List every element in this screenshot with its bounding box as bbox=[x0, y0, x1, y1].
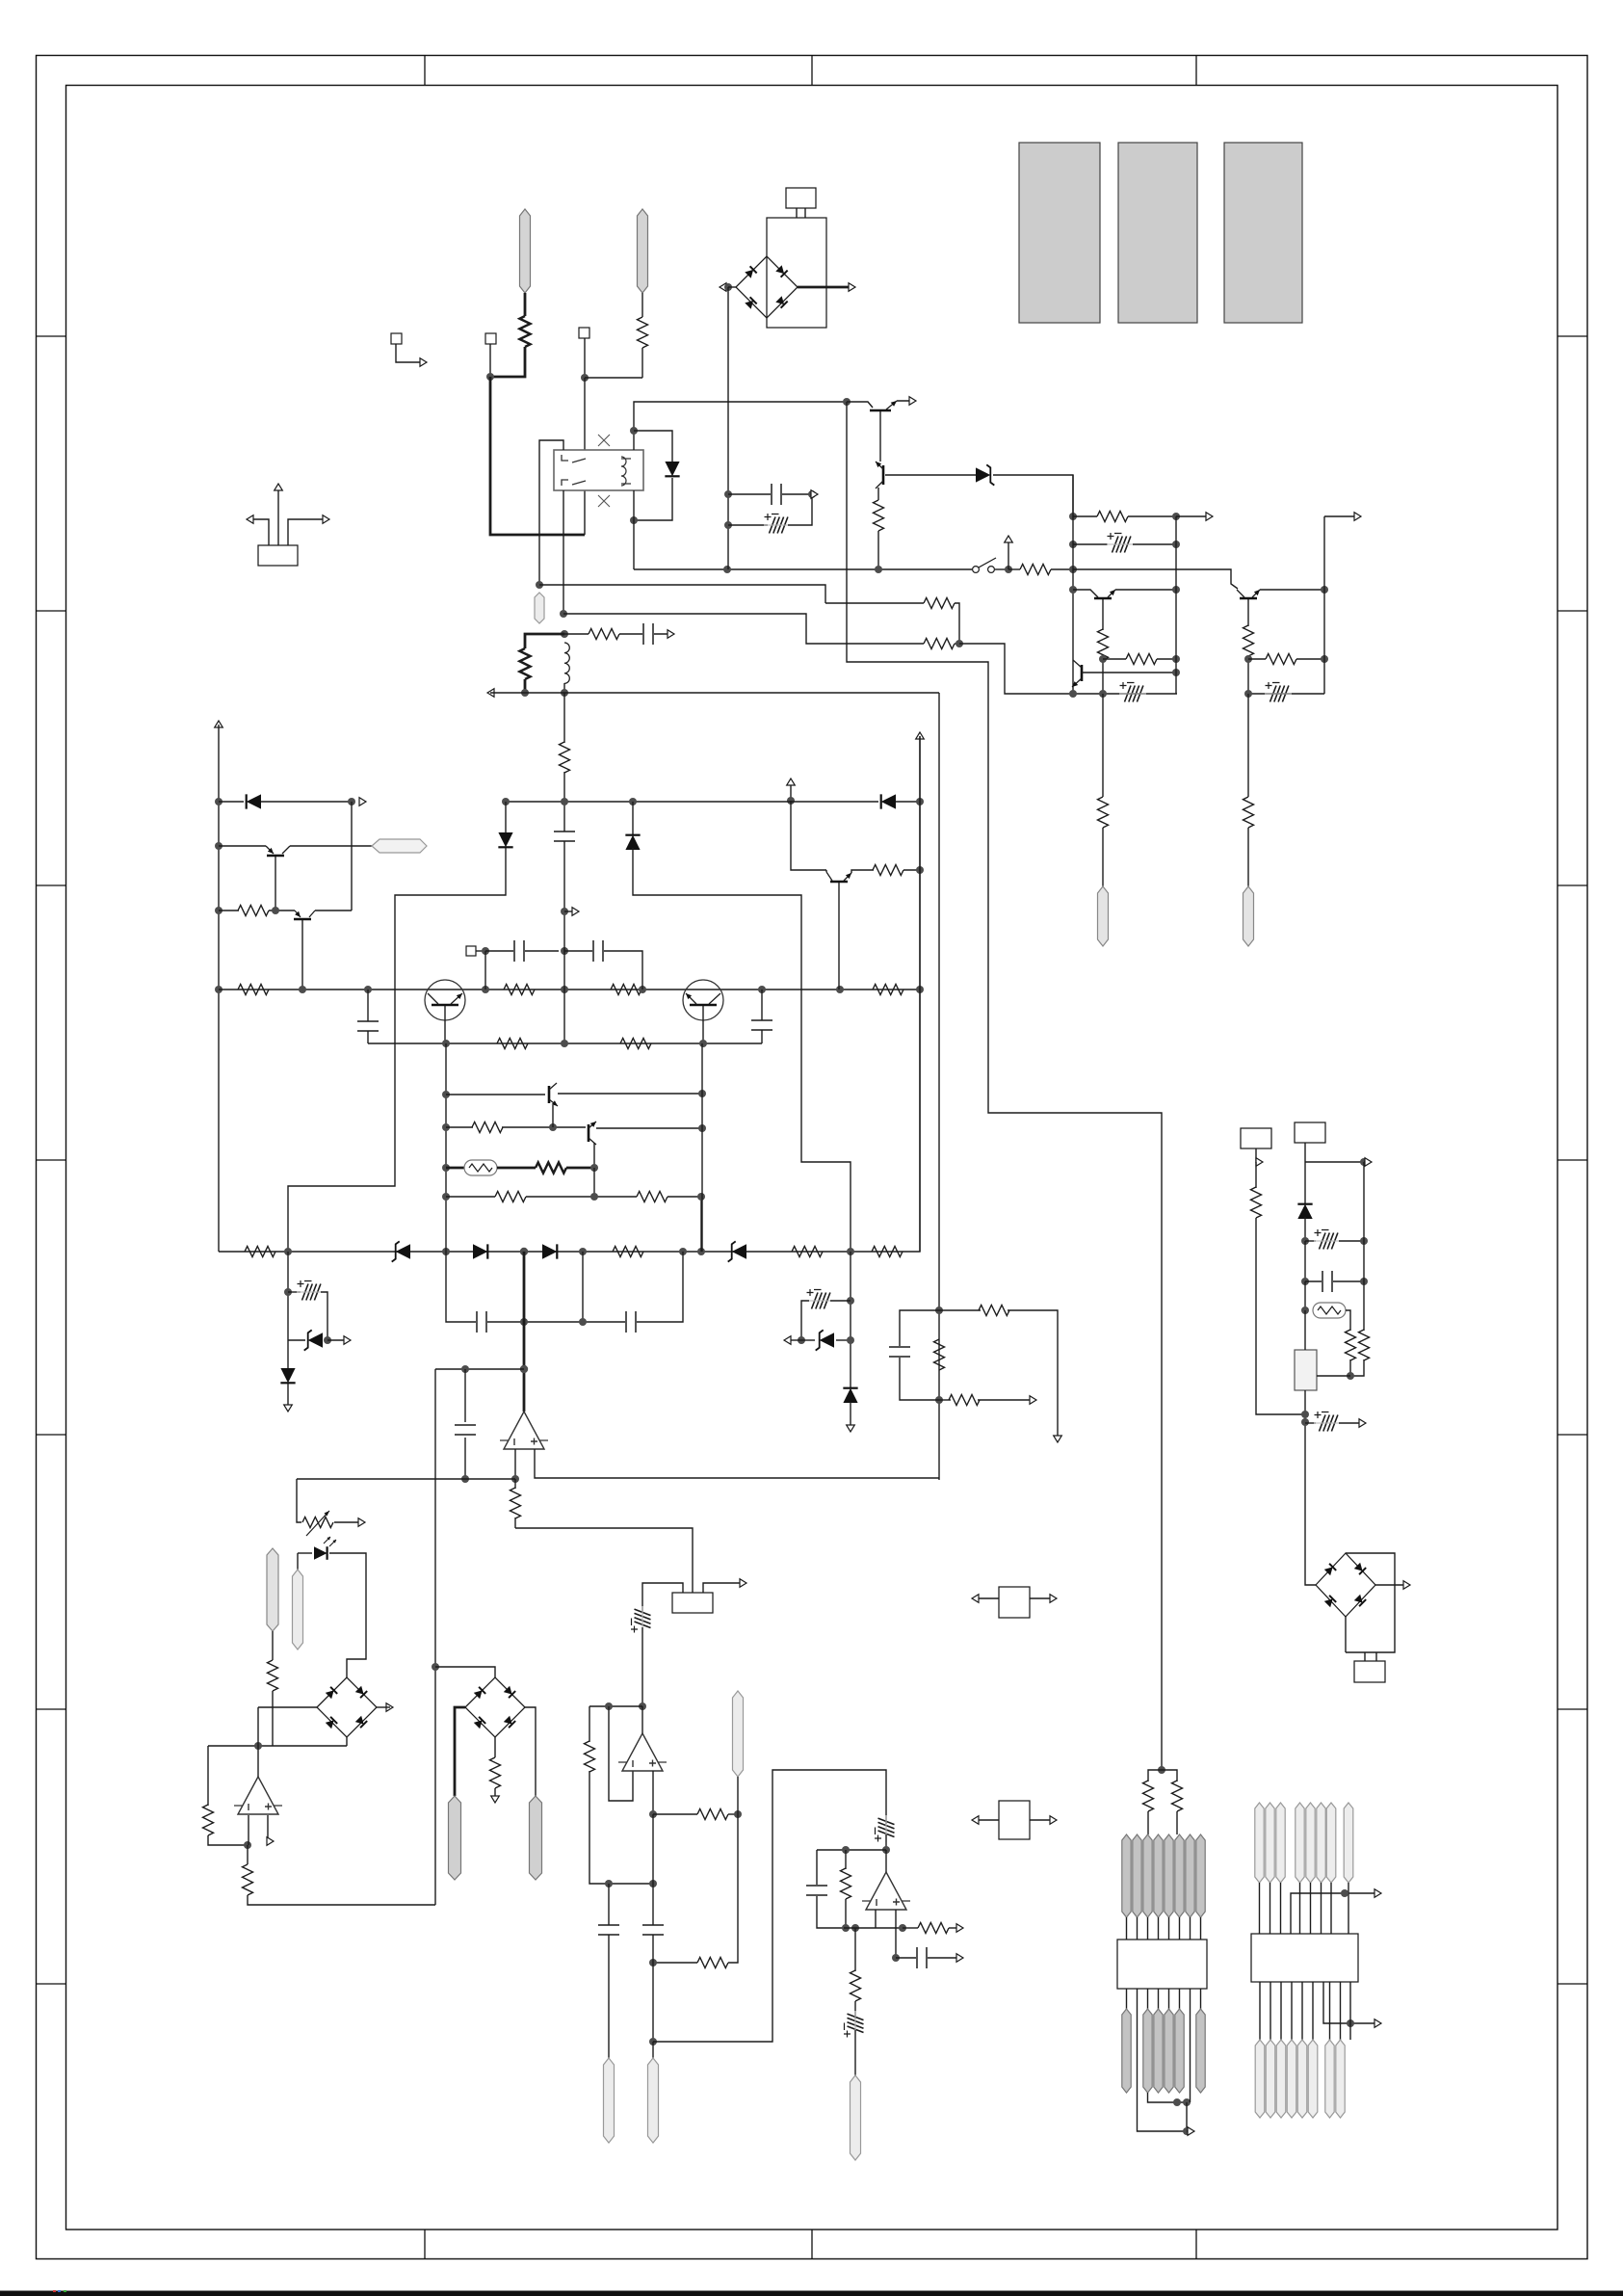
lead U7 bottom 3 bbox=[1280, 1982, 1282, 2040]
B3 right to pin bbox=[525, 1707, 536, 1796]
R31 to rail1586 bbox=[514, 1517, 516, 1528]
CP7 down bbox=[641, 1627, 643, 1706]
junction pin J3 top bbox=[536, 581, 543, 589]
resistor R46 bbox=[472, 1122, 503, 1133]
polarized capacitor CP8 bbox=[875, 1815, 895, 1842]
QC left diag wire bbox=[825, 870, 827, 872]
junction coil top bbox=[630, 427, 638, 435]
U4 plus stub bbox=[652, 1771, 654, 1814]
junction P2/R1 bbox=[486, 373, 494, 381]
rail y832 left segment b bbox=[261, 801, 352, 803]
CP8 down bbox=[885, 1834, 887, 1850]
connector block CN1 bbox=[1354, 1661, 1385, 1682]
x452 to B3 bbox=[435, 1667, 495, 1677]
WF fork right bbox=[1162, 1770, 1177, 1781]
lead U7 bottom 2 bbox=[1270, 1982, 1271, 2040]
U3 out vertical bbox=[257, 1707, 259, 1777]
wire P3 down to relay bbox=[584, 378, 586, 450]
connector pin WF2-3 bbox=[1154, 2009, 1163, 2093]
B3 left to pin bbox=[455, 1707, 465, 1796]
lead WF1-4 bbox=[1158, 1917, 1160, 1940]
R27 down bbox=[272, 1691, 274, 1746]
polarized capacitor CP10 bbox=[1314, 1229, 1341, 1250]
junction y2001 x937 bbox=[899, 1924, 906, 1932]
cap row y1372 right bbox=[637, 1252, 683, 1322]
zd5 row b bbox=[836, 1339, 851, 1341]
pcap row left bbox=[288, 1291, 301, 1293]
wire coil to D1 bbox=[634, 431, 672, 462]
wire from P3 bbox=[584, 338, 586, 378]
x678 chain c bbox=[652, 2042, 654, 2058]
row y1242 b bbox=[526, 1196, 637, 1198]
junction x975 y1453 bbox=[935, 1396, 943, 1404]
zd4 arrow wire bbox=[327, 1339, 348, 1341]
cap loop x934 b bbox=[900, 1358, 939, 1400]
junction R14 out bbox=[1321, 655, 1328, 663]
junction x832 zd5 bbox=[798, 1336, 805, 1344]
wire to R3 bbox=[825, 602, 924, 604]
arrow X1 left bbox=[972, 1595, 979, 1603]
diode D1 bbox=[665, 462, 679, 476]
R11 to rail bbox=[1157, 658, 1176, 660]
U2 minus stub bbox=[514, 1449, 516, 1479]
Ta lead down bbox=[275, 857, 276, 910]
junction x1355 y1330 bbox=[1301, 1278, 1309, 1285]
big loop right bbox=[653, 1770, 886, 2042]
vertical x955 bbox=[919, 736, 921, 1252]
junction x955 y903 bbox=[916, 866, 924, 874]
wire J2 to R2 bbox=[641, 293, 643, 317]
connector pin WF4-8 bbox=[1336, 2040, 1345, 2118]
junction y1083 b bbox=[561, 1040, 568, 1047]
x1355 seg4 bbox=[1304, 1310, 1306, 1350]
arrow gnd x299 bbox=[284, 1405, 293, 1412]
lead U7 bottom 8 bbox=[1340, 1982, 1342, 2040]
border tick right y1489 bbox=[1558, 1434, 1587, 1436]
junction R11 out bbox=[1172, 655, 1180, 663]
junction x955 y1027 bbox=[916, 986, 924, 993]
row y1170 bbox=[446, 1126, 473, 1128]
resistor R21b bbox=[620, 1039, 651, 1049]
x452 long vertical bbox=[434, 1369, 436, 1905]
junction coil bottom bbox=[630, 516, 638, 524]
junction x1355 y1476 bbox=[1301, 1418, 1309, 1426]
resistor R21 bbox=[497, 1039, 528, 1049]
pcap row y1288 b bbox=[1339, 1240, 1364, 1242]
connector pin J6 bbox=[293, 1570, 303, 1649]
junction y1920 x878 bbox=[842, 1846, 850, 1854]
junction U4 plus bbox=[649, 1810, 657, 1818]
vertical x1375 bbox=[1323, 516, 1325, 694]
junction x463 y1170 bbox=[442, 1123, 450, 1131]
gray block 2 bbox=[1118, 143, 1197, 323]
lead U7 bottom 1 bbox=[1259, 1982, 1261, 2040]
connector pin WF4-1 bbox=[1255, 2040, 1265, 2118]
wire from P2 bbox=[489, 344, 491, 377]
x883 below D9 bbox=[850, 1402, 851, 1425]
arrow X1 right bbox=[1050, 1595, 1057, 1603]
resistor R28 bbox=[203, 1805, 214, 1835]
relay X mark top bbox=[598, 435, 610, 446]
X1 left wire bbox=[975, 1597, 999, 1599]
X2 right wire bbox=[1030, 1819, 1054, 1821]
K1 right stub bbox=[703, 1583, 744, 1593]
wire B1 left vertex bbox=[728, 286, 737, 288]
lamp out bbox=[1346, 1310, 1350, 1331]
pin J6 stub bbox=[297, 1553, 299, 1570]
junction y1372 x544 bbox=[520, 1318, 528, 1326]
border tick bottom x843 bbox=[811, 2230, 813, 2259]
diode D4 bbox=[498, 832, 512, 847]
capacitor C4 bbox=[593, 940, 603, 962]
junction y832 x657 bbox=[629, 798, 637, 805]
wire R4 to node bbox=[955, 643, 959, 645]
junction x586 y946 bbox=[561, 908, 568, 915]
x1355 seg2 bbox=[1304, 1241, 1306, 1281]
x678 chain b bbox=[652, 1935, 654, 2042]
IC U6 body bbox=[1117, 1940, 1207, 1989]
cap row y987 b bbox=[525, 950, 559, 952]
R42 out bbox=[978, 1399, 1034, 1401]
rail y720 left bbox=[1073, 693, 1177, 695]
U7 route bottom bbox=[1323, 1982, 1377, 2023]
wire C2 to node bbox=[782, 493, 812, 495]
junction route d bbox=[1183, 2127, 1191, 2135]
x586 upper bbox=[563, 802, 565, 831]
junction x1355 y1468 bbox=[1301, 1411, 1309, 1418]
x729 column bbox=[701, 1043, 703, 1252]
terminal square P1 bbox=[391, 333, 402, 344]
connector pin WF1-5 bbox=[1165, 1834, 1173, 1917]
bridge rectifier B2 bbox=[317, 1677, 377, 1737]
arrow zd5 bbox=[784, 1336, 791, 1345]
resistor R34 bbox=[697, 1958, 728, 1968]
connector pin WF1-1 bbox=[1122, 1834, 1131, 1917]
VR1 right lead bbox=[1317, 1375, 1350, 1377]
cap row y1330 bbox=[1305, 1280, 1322, 1282]
transistor QA circle bbox=[425, 980, 465, 1020]
thick branch to R5 bbox=[525, 634, 564, 648]
arrow U3 plus bbox=[267, 1837, 274, 1846]
T3 base row bbox=[1082, 672, 1176, 673]
connector pin WF1-8 bbox=[1196, 1834, 1205, 1917]
x888 chain c bbox=[854, 2030, 856, 2075]
Ta to net label bbox=[290, 845, 372, 847]
junction y2119 x678 bbox=[649, 2038, 657, 2045]
arrow Y1 left bbox=[247, 515, 253, 524]
y1453 to R42 bbox=[939, 1399, 951, 1401]
lead WF1-6 bbox=[1179, 1917, 1181, 1940]
left vertical x227 bbox=[218, 725, 220, 1252]
junction x883 pcap bbox=[847, 1297, 854, 1305]
y2001 to R36 bbox=[903, 1927, 918, 1929]
junction QC col bbox=[836, 986, 844, 993]
x632 lower chain bbox=[608, 1884, 610, 1925]
U2 plus stub bbox=[535, 1449, 939, 1478]
x1296 down to R15 bbox=[1247, 694, 1249, 797]
pcap row y1288 bbox=[1305, 1240, 1316, 1242]
right vertical x1221 bbox=[1175, 516, 1177, 694]
R9 to node bbox=[1128, 515, 1176, 517]
resistor R45 bbox=[1359, 1330, 1370, 1360]
junction R5 rail bbox=[521, 689, 529, 697]
junction QB base bbox=[758, 986, 766, 993]
Ta base wire bbox=[219, 845, 266, 847]
T2 col wire bbox=[1073, 590, 1098, 597]
connector pin WF3-6 bbox=[1317, 1803, 1325, 1883]
arrow U7 top bbox=[1374, 1889, 1381, 1898]
Y1 left lead bbox=[250, 519, 269, 545]
lead WF3-8 bbox=[1348, 1883, 1349, 1934]
junction y832 x586 bbox=[561, 798, 568, 805]
x382 cap leg b bbox=[367, 1031, 369, 1043]
resistor R44 bbox=[1346, 1330, 1356, 1360]
Q2 emitter down bbox=[877, 488, 879, 500]
x463 column bbox=[445, 1043, 447, 1252]
junction x1416 y1330 bbox=[1360, 1278, 1368, 1285]
rail y832 left segment bbox=[219, 801, 244, 803]
TB2 lead bbox=[1304, 1143, 1306, 1203]
junction y832 x525 bbox=[502, 798, 510, 805]
P4 node down bbox=[484, 951, 486, 990]
polarized capacitor CP5 bbox=[297, 1280, 324, 1301]
zd5 row bbox=[801, 1339, 815, 1341]
thick bus down-left of opto bbox=[490, 377, 585, 535]
junction x227 y945 bbox=[215, 907, 223, 914]
junction x452 y1730 bbox=[432, 1663, 439, 1671]
junction x1355 y1360 bbox=[1301, 1306, 1309, 1314]
x525 chain down bbox=[288, 848, 506, 1252]
junction pcap2 left bbox=[1069, 541, 1077, 548]
lead WF1-8 bbox=[1200, 1917, 1202, 1940]
junction P4 node bbox=[482, 947, 489, 955]
junction y1428 bbox=[1347, 1372, 1354, 1380]
junction y1299 x728 bbox=[697, 1248, 705, 1255]
resistor R11 bbox=[1126, 654, 1157, 665]
lead U6 bottom 4 bbox=[1168, 1989, 1170, 2009]
junction y1299 x883 bbox=[847, 1248, 854, 1255]
resistor R24 bbox=[613, 1247, 643, 1257]
relay U1 body bbox=[554, 450, 643, 490]
arrow Y1 up bbox=[275, 484, 283, 490]
x617 link bbox=[593, 1168, 595, 1197]
lead WF3-2 bbox=[1270, 1883, 1271, 1934]
QB emitter down bbox=[702, 1006, 704, 1043]
pcap row right a bbox=[830, 1300, 851, 1302]
lamp row thick b bbox=[497, 1167, 536, 1170]
resistor R15 bbox=[1243, 797, 1254, 828]
x728 link bbox=[700, 1197, 702, 1252]
connector pin WF2-5 bbox=[1175, 2009, 1184, 2093]
row y1242 bbox=[446, 1196, 495, 1198]
net x975 chain bbox=[938, 693, 940, 1478]
junction R9 out bbox=[1172, 513, 1180, 520]
pcap row y1477 b bbox=[1339, 1422, 1363, 1424]
wire J1 to R1 bbox=[524, 293, 527, 316]
bottom black strip bbox=[0, 2291, 1623, 2296]
C14 out bbox=[928, 1957, 960, 1959]
connector pin WF4-2 bbox=[1266, 2040, 1275, 2118]
connector pin J1 bbox=[520, 209, 531, 293]
rail y2001 bbox=[844, 1927, 903, 1929]
resistor R39 bbox=[1172, 1781, 1183, 1811]
lead WF3-6 bbox=[1321, 1883, 1322, 1934]
resistor R27 bbox=[268, 1660, 278, 1691]
connector pin WF3-7 bbox=[1326, 1803, 1336, 1883]
x257 to R29 bbox=[247, 1845, 249, 1864]
pcap row right b bbox=[801, 1301, 809, 1340]
thermistor lamp RT1 bbox=[1313, 1303, 1346, 1318]
terminal square P4 bbox=[466, 946, 476, 956]
junction y2001 x878 bbox=[842, 1924, 850, 1932]
x216 chain b bbox=[208, 1835, 248, 1845]
U6 route d bbox=[1138, 1989, 1188, 2131]
gray block 1 bbox=[1019, 143, 1100, 323]
rail y1812 bbox=[208, 1745, 347, 1747]
resistor R13 bbox=[1243, 625, 1254, 656]
R43 down bbox=[1256, 1218, 1305, 1414]
connector pin WF4-6 bbox=[1308, 2040, 1318, 2118]
junction x227 y832 bbox=[215, 798, 223, 805]
cap row y1372 mid bbox=[487, 1321, 625, 1323]
R45 down bbox=[1350, 1359, 1364, 1376]
arrow Q1 emitter bbox=[909, 397, 916, 406]
relay coil top lead bbox=[634, 402, 729, 450]
resistor R48 bbox=[495, 1192, 526, 1202]
resistor R19 bbox=[611, 985, 641, 995]
capacitor C16 bbox=[1322, 1271, 1332, 1292]
zener diode ZD3 bbox=[732, 1244, 746, 1258]
wire to CP2 bbox=[1073, 543, 1108, 545]
QC collector bbox=[838, 883, 840, 990]
resistor R41 bbox=[934, 1339, 945, 1370]
resistor R50 bbox=[560, 742, 570, 773]
connector pin J5 bbox=[1243, 886, 1254, 946]
resistor R40 bbox=[979, 1306, 1009, 1316]
arrow x955 top bbox=[916, 732, 925, 739]
capacitor C14 bbox=[917, 1947, 927, 1968]
diode D2 bbox=[247, 794, 261, 808]
J10 to node bbox=[737, 1777, 739, 1814]
border tick right y634 bbox=[1558, 610, 1587, 612]
left vertical x1114 bbox=[1072, 475, 1074, 694]
Q1 emitter out bbox=[897, 400, 913, 402]
x382 cap leg bbox=[367, 990, 369, 1021]
vertical x365 bbox=[351, 802, 353, 910]
resistor R17 bbox=[238, 985, 269, 995]
resistor R49 bbox=[637, 1192, 668, 1202]
T4 emitter wire bbox=[1260, 589, 1324, 591]
relay U1 contact top bbox=[562, 455, 586, 462]
lead U7 bottom 6 bbox=[1312, 1982, 1314, 2040]
connector pin J7 bbox=[267, 1548, 278, 1631]
polarized capacitor CP2 bbox=[1107, 533, 1134, 553]
B4 out bbox=[1375, 1584, 1406, 1586]
resistor R30 bbox=[490, 1757, 501, 1788]
R12 to pin bbox=[1102, 828, 1104, 886]
connector pin WF3-8 bbox=[1344, 1803, 1353, 1883]
resistor R42 bbox=[949, 1395, 980, 1406]
connector pin J4 bbox=[1098, 886, 1109, 946]
op-amp U4 bbox=[622, 1733, 663, 1771]
lead U7 bottom 4 bbox=[1291, 1982, 1293, 2040]
junction pcap row bbox=[724, 521, 732, 529]
junction WF feed bbox=[1158, 1766, 1165, 1774]
junction x483 y1535 bbox=[461, 1475, 469, 1483]
junction Tb base bbox=[272, 907, 279, 914]
U5 out stub bbox=[885, 1850, 887, 1872]
junction U5 top bbox=[882, 1846, 890, 1854]
junction bridge line y591 bbox=[723, 566, 731, 573]
x1355 seg3 bbox=[1304, 1281, 1306, 1310]
arrow rail x227 top bbox=[215, 721, 223, 727]
x612 chain b bbox=[589, 1771, 653, 1884]
x1145 down to R12 bbox=[1102, 694, 1104, 797]
x678 chain bbox=[652, 1814, 654, 1925]
junction y1955 x632 bbox=[605, 1880, 613, 1887]
fusible resistor RF1 bbox=[464, 1160, 497, 1175]
Y1 mid lead bbox=[277, 488, 279, 545]
lead WF3-5 bbox=[1310, 1883, 1312, 1934]
junction U5 plus bbox=[892, 1954, 900, 1962]
connector pin WF2-2 bbox=[1143, 2009, 1152, 2093]
arrow TB2 bbox=[1365, 1158, 1372, 1167]
diode D6 bbox=[473, 1244, 487, 1258]
junction S1 node bbox=[1005, 566, 1012, 573]
op-amp U3 bbox=[238, 1777, 278, 1814]
X2 left wire bbox=[975, 1819, 999, 1821]
x1375 top arrow bbox=[1324, 515, 1358, 517]
junction y1083 c bbox=[699, 1040, 707, 1047]
connector pin WF3-1 bbox=[1255, 1803, 1264, 1883]
junction L1 rail bbox=[561, 689, 568, 697]
connector pin WF2-1 bbox=[1122, 2009, 1131, 2093]
U5 minus stub bbox=[875, 1910, 877, 1928]
junction y1299 x605 bbox=[579, 1248, 587, 1255]
junction x883 zd5 bbox=[847, 1336, 854, 1344]
junction x1416 y1288 bbox=[1360, 1237, 1368, 1245]
rail y1083 bbox=[368, 1042, 762, 1044]
arrow x586 y946 bbox=[572, 908, 579, 916]
op-amp U2 bbox=[504, 1412, 544, 1449]
polarized capacitor CP4 bbox=[1265, 682, 1292, 702]
row y1771 bbox=[589, 1705, 642, 1707]
junction TB2 branch bbox=[1360, 1158, 1368, 1166]
R39 to pins bbox=[1176, 1811, 1178, 1834]
arrow B4 bbox=[1403, 1581, 1410, 1590]
R8 to T-block bbox=[1051, 568, 1073, 570]
inductor L1 bbox=[564, 643, 569, 683]
junction x586 y987 bbox=[561, 947, 568, 955]
transistor T8 bbox=[588, 1124, 590, 1142]
U6 route b bbox=[1190, 1989, 1191, 2102]
lead WF3-4 bbox=[1299, 1883, 1301, 1934]
row y1136 bbox=[446, 1094, 545, 1095]
lead U6 bottom 5 bbox=[1179, 1989, 1181, 2009]
R33 to pin node bbox=[728, 1813, 738, 1815]
junction y832 x955 bbox=[916, 798, 924, 805]
junction U7 bottom net bbox=[1347, 2019, 1354, 2027]
x586 rail719 to R bbox=[563, 693, 565, 743]
zener diode ZD4 bbox=[308, 1333, 323, 1347]
lead WF1-1 bbox=[1126, 1917, 1128, 1940]
junction U3 minus bbox=[244, 1841, 251, 1849]
capacitor C7 bbox=[751, 1020, 772, 1030]
x632 lower chain b bbox=[608, 1935, 610, 2058]
terminal square P2 bbox=[485, 333, 496, 344]
R22 to x955 bbox=[903, 869, 920, 871]
resistor R14 bbox=[1266, 654, 1296, 665]
